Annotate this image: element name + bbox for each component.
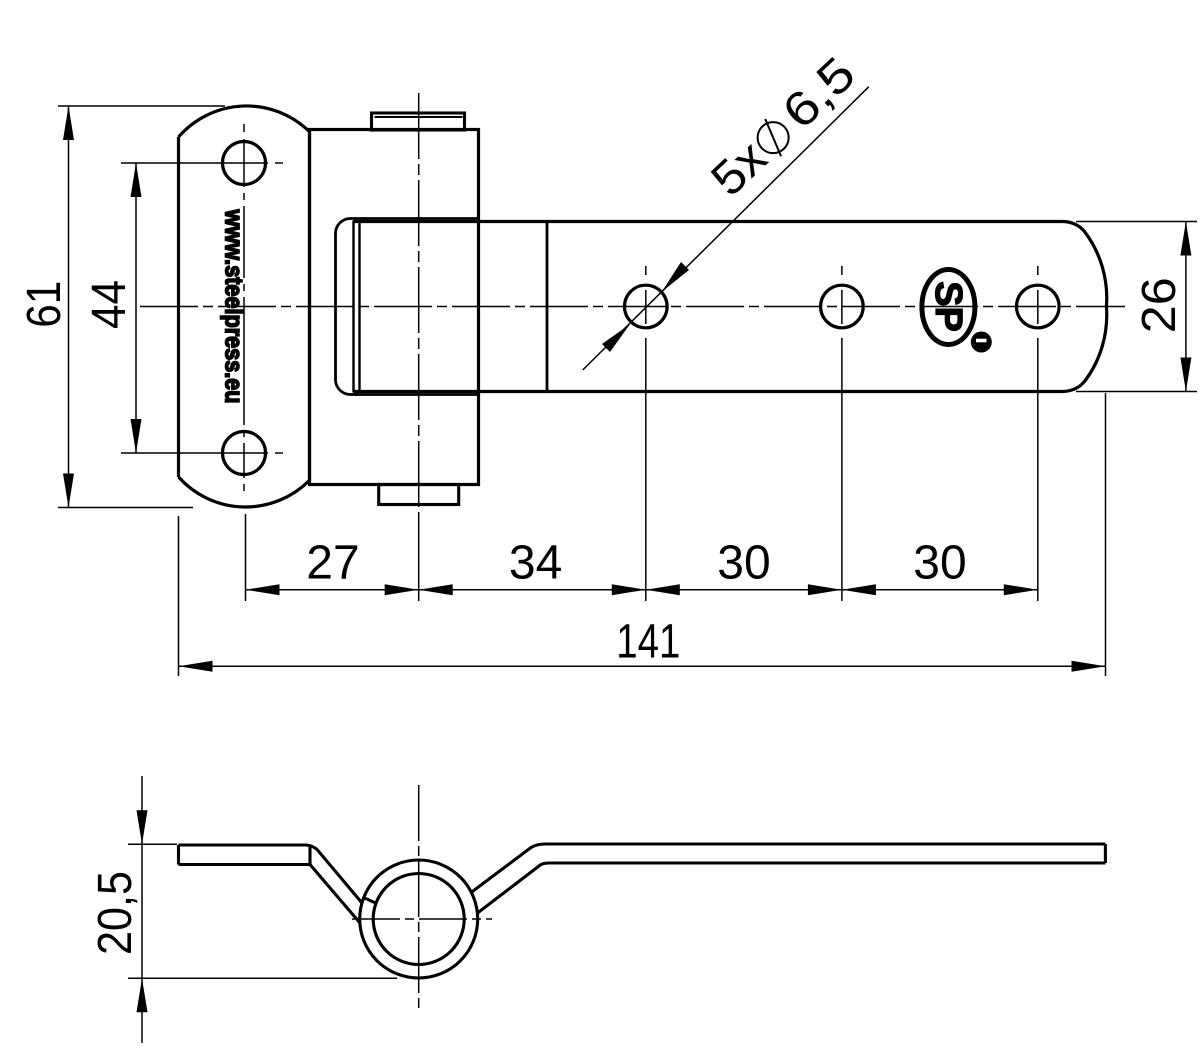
svg-text:27: 27 bbox=[306, 537, 359, 590]
strap hole 1 bbox=[625, 285, 668, 328]
dim 141 extension lines bbox=[179, 393, 1106, 676]
strap wrap end line bbox=[546, 222, 549, 392]
leader arrowhead upper bbox=[662, 262, 689, 292]
pin tab top bbox=[372, 113, 465, 130]
pin tab top inner line bbox=[375, 116, 463, 118]
strap hole 3 bbox=[1017, 285, 1060, 328]
dim 26 line bbox=[1185, 222, 1187, 392]
dim 61 extension lines bbox=[58, 106, 225, 508]
dim 141 arrow right bbox=[1072, 661, 1106, 672]
plate hole top bbox=[223, 142, 266, 185]
logo ellipse ring bbox=[922, 270, 975, 345]
dim 26 arrow bottom bbox=[1180, 358, 1191, 392]
dim 61 arrow bottom bbox=[63, 474, 74, 508]
dim 141 line bbox=[179, 665, 1106, 667]
strap fold outer outline bbox=[336, 219, 479, 395]
dim 20,5 arrow bottom bbox=[137, 978, 148, 1012]
side view left flat bar bbox=[179, 845, 311, 865]
logo registered mark bbox=[971, 332, 992, 353]
svg-text:SP: SP bbox=[927, 281, 969, 332]
sheet end cut edge bbox=[363, 897, 377, 904]
dim 141 arrow left bbox=[179, 661, 213, 672]
svg-text:34: 34 bbox=[509, 537, 562, 590]
right strap end cap bbox=[1104, 844, 1107, 863]
dim 20,5 extension lines bbox=[128, 844, 397, 978]
svg-text:20,5: 20,5 bbox=[89, 871, 142, 955]
dim row arrows at 645.8 bbox=[612, 584, 646, 595]
strap hole 3 vertical centerline bbox=[1037, 266, 1039, 324]
svg-text:30: 30 bbox=[913, 537, 966, 590]
left bend upper diagonal bbox=[306, 845, 362, 903]
strap hole 1 extension line bbox=[645, 338, 647, 601]
coil inner circle bbox=[373, 874, 464, 965]
svg-text:44: 44 bbox=[83, 280, 136, 329]
strap hole 2 vertical centerline bbox=[841, 266, 843, 324]
dim 20,5 line bbox=[141, 776, 143, 1043]
dim row arrows at 245.5 bbox=[246, 584, 280, 595]
dim 26 arrow top bbox=[1180, 222, 1191, 256]
strap fold inner edge bbox=[352, 221, 354, 393]
dim 44 line bbox=[135, 163, 137, 453]
vertical centerline through plate holes bbox=[243, 124, 245, 491]
horizontal centerline of top view bbox=[140, 306, 1125, 308]
dim 61 line bbox=[68, 106, 70, 508]
strap hole 2 extension line bbox=[841, 338, 843, 601]
dim 44 arrow top bbox=[131, 163, 142, 197]
right bend upper diagonal bbox=[471, 844, 1105, 892]
svg-text:61: 61 bbox=[18, 281, 71, 328]
strap hole 3 extension line bbox=[1037, 338, 1039, 601]
svg-text:141: 141 bbox=[616, 616, 680, 669]
left bend lower diagonal bbox=[310, 865, 360, 923]
dim 26 extension lines bbox=[1076, 222, 1197, 392]
extension line plate-hole column bbox=[245, 514, 247, 601]
dim row 27/34/30/30 line bbox=[246, 589, 1038, 591]
knuckle body rectangle bbox=[310, 130, 479, 485]
dim row arrows at 418.7 bbox=[385, 584, 419, 595]
svg-text:26: 26 bbox=[1133, 277, 1186, 333]
dim 44 arrow bottom bbox=[131, 419, 142, 453]
side view horizontal centerline bbox=[352, 918, 492, 920]
dim row arrow at 1037.8 bbox=[1004, 584, 1038, 595]
label 5x dia 6,5 bbox=[701, 47, 865, 206]
plate hole bottom crosshair bbox=[121, 452, 283, 454]
coil outer circle bbox=[360, 860, 478, 978]
dim row arrows at 841.9 bbox=[808, 584, 842, 595]
strap outline with rounded tip bbox=[354, 222, 1107, 392]
dim 61 arrow top bbox=[63, 106, 74, 140]
left plate outline bbox=[179, 106, 310, 507]
side view vertical centerline bbox=[418, 785, 420, 1008]
strap hole 2 bbox=[821, 285, 864, 328]
plate hole top crosshair bbox=[121, 162, 283, 164]
svg-text:www.steelpress.eu: www.steelpress.eu bbox=[220, 209, 248, 404]
right bend lower diagonal bbox=[478, 863, 1106, 913]
strap hole 1 vertical centerline bbox=[645, 266, 647, 324]
dim 20,5 arrow top bbox=[137, 810, 148, 844]
vertical centerline pivot axis bbox=[418, 93, 420, 510]
svg-text:30: 30 bbox=[717, 537, 770, 590]
leader line 5x dia 6.5 bbox=[583, 87, 869, 370]
strap left end edge bbox=[358, 222, 360, 392]
pin tab bottom bbox=[379, 485, 459, 505]
leader arrowhead lower bbox=[602, 324, 630, 352]
plate hole bottom bbox=[223, 432, 266, 475]
